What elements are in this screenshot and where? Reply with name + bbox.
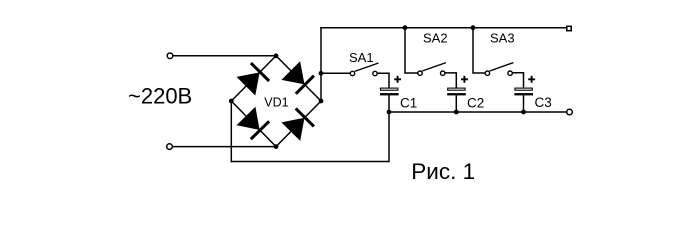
- svg-text:SA2: SA2: [423, 30, 448, 45]
- wire bottom return rail: [231, 112, 389, 162]
- node top of bridge: [274, 53, 279, 58]
- capacitor C2: [447, 76, 468, 96]
- wire C3 bottom lead: [523, 96, 525, 112]
- diode VD1.4 bottom-right: [281, 108, 314, 140]
- wire SA2 out to C2: [445, 73, 456, 88]
- switch SA2: [418, 63, 446, 76]
- wire SA3 feed: [473, 28, 485, 73]
- node C1 bottom junction: [387, 110, 392, 115]
- diode VD1.2 top-right: [281, 61, 314, 94]
- wire diamond edge TR: [276, 56, 321, 101]
- svg-text:SA1: SA1: [349, 50, 374, 65]
- node bottom of bridge: [274, 144, 279, 149]
- wire bottom AC: [173, 146, 276, 148]
- wire SA1 out to C1: [378, 73, 389, 87]
- svg-text:~220В: ~220В: [128, 83, 192, 108]
- wire top AC: [173, 55, 276, 57]
- svg-text:C3: C3: [535, 95, 552, 110]
- node SA1 tap: [319, 71, 324, 76]
- wire SA1 feed: [321, 72, 350, 74]
- wire diamond edge TL: [231, 56, 276, 101]
- wire diamond edge BL: [231, 101, 276, 147]
- terminal top-left: [167, 53, 173, 59]
- capacitor C3: [514, 76, 535, 96]
- wire left node down: [230, 101, 232, 162]
- wire SA3 out to C3: [513, 73, 524, 88]
- svg-text:C1: C1: [400, 96, 417, 111]
- node C2 bottom junction: [454, 110, 459, 115]
- node C3 bottom junction: [521, 110, 526, 115]
- diode VD1.1 top-left: [237, 63, 270, 96]
- terminal bottom-left: [167, 144, 173, 150]
- diode VD1.3 bottom-left: [237, 107, 270, 140]
- terminal bottom-right: [567, 109, 573, 115]
- wire C2 bottom lead: [455, 96, 457, 112]
- switch SA3: [485, 63, 513, 76]
- switch SA1: [350, 63, 378, 76]
- node SA3 tap: [471, 25, 476, 30]
- svg-text:SA3: SA3: [490, 30, 515, 45]
- svg-text:C2: C2: [467, 96, 484, 111]
- node SA2 tap: [403, 25, 408, 30]
- svg-text:Рис. 1: Рис. 1: [411, 159, 475, 184]
- svg-text:VD1: VD1: [264, 96, 288, 110]
- wire capacitor bottom rail: [389, 111, 566, 113]
- capacitor C1: [380, 76, 401, 96]
- wire top rail: [321, 27, 567, 29]
- wire SA2 feed: [405, 28, 417, 73]
- wire right node up: [320, 28, 322, 101]
- terminal top-right square: [567, 26, 571, 30]
- wire C1 bottom lead: [388, 96, 390, 112]
- node right of bridge: [319, 99, 324, 104]
- wire diamond edge BR: [276, 101, 321, 147]
- node left of bridge: [229, 99, 234, 104]
